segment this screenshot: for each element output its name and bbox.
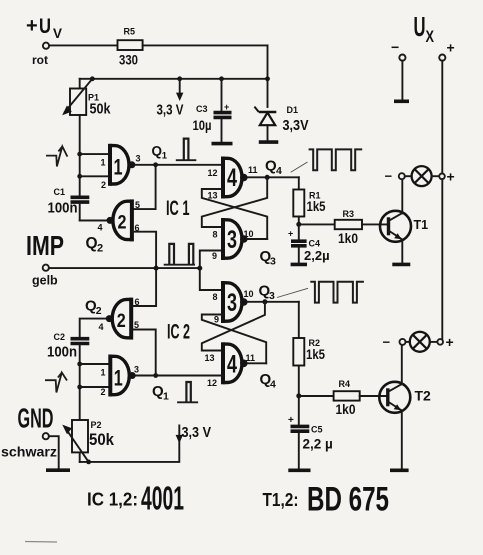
svg-text:+: + (447, 40, 455, 56)
lamp L2 (410, 332, 430, 352)
node IMP terminal (26, 230, 64, 288)
svg-text:3,3V: 3,3V (283, 117, 309, 134)
node Q2 label (86, 235, 104, 255)
node Q4 IC2 wire (248, 363, 276, 390)
svg-text:11: 11 (248, 165, 258, 175)
capacitor C2 100n (47, 332, 89, 361)
caption transistor types (263, 481, 390, 519)
caption IC types (87, 480, 184, 517)
svg-text:+: + (288, 229, 293, 239)
svg-text:−: − (391, 39, 399, 55)
svg-text:+: + (446, 334, 454, 350)
svg-text:C5: C5 (311, 425, 323, 435)
wire IMP to pin8 gate3 IC2 (200, 268, 223, 290)
wire P1 down left rail (79, 115, 81, 196)
resistor R5 330 (118, 27, 143, 68)
svg-text:1: 1 (163, 391, 169, 403)
ground bar Ux minus (394, 100, 409, 104)
ground bar GND (46, 468, 70, 472)
node Q2 IC2 label (85, 298, 102, 318)
svg-text:C3: C3 (196, 104, 208, 114)
wire pin6 gate2 IC2 up to IMP (131, 268, 156, 306)
svg-text:IMP: IMP (26, 230, 64, 261)
3.3V arrow top (157, 79, 184, 119)
junction IMP-gate2 (154, 266, 159, 271)
svg-text:3,3 V: 3,3 V (182, 424, 212, 441)
terminal circle rail lamp1 (439, 174, 445, 180)
node Ux terminals (391, 11, 455, 61)
svg-text:X: X (426, 27, 435, 46)
ground D1 (259, 140, 279, 144)
svg-text:3: 3 (270, 256, 276, 268)
svg-text:4: 4 (227, 350, 237, 378)
pointer line Q3 waveform (277, 288, 308, 297)
svg-text:1: 1 (114, 366, 123, 391)
svg-text:2,2 µ: 2,2 µ (303, 437, 333, 452)
svg-text:1: 1 (114, 155, 123, 180)
svg-text:10µ: 10µ (193, 117, 212, 133)
svg-text:−: − (383, 335, 391, 350)
svg-text:Q: Q (86, 235, 98, 252)
svg-text:2: 2 (97, 243, 103, 255)
wire gate2 IC2 output to left rail (80, 319, 106, 337)
wire lamp1 to rail (432, 175, 440, 177)
svg-text:1: 1 (162, 151, 168, 162)
node +Uv terminal (26, 15, 63, 67)
wire pin13 to Q3 cross-coupling (202, 189, 267, 239)
svg-text:+: + (288, 415, 294, 426)
waveform Q3 IC2 (310, 282, 364, 303)
svg-text:1k0: 1k0 (338, 231, 358, 246)
svg-text:3: 3 (227, 226, 237, 254)
zener diode D1 3,3V (254, 105, 308, 140)
svg-text:T1: T1 (414, 218, 429, 232)
svg-text:100n: 100n (48, 201, 78, 217)
svg-text:2: 2 (101, 180, 106, 190)
svg-text:U: U (39, 15, 51, 38)
node Q3 IC2 wire (248, 283, 299, 305)
wire R5 to corner (143, 44, 268, 46)
lamp row 2 (383, 335, 410, 350)
junction gate1 input B (77, 174, 82, 179)
terminal circle rail lamp2 (437, 339, 443, 345)
svg-text:12: 12 (208, 168, 218, 178)
svg-text:2: 2 (96, 305, 102, 317)
wire GND stub (49, 436, 59, 468)
wire C1 to Q2 corner (80, 204, 109, 221)
NOR gate 1 IC2 (101, 355, 140, 398)
svg-text:GND: GND (18, 403, 54, 434)
svg-text:P2: P2 (91, 420, 102, 430)
svg-text:C1: C1 (54, 187, 66, 197)
svg-text:5: 5 (135, 200, 140, 210)
wire gate1 input B (80, 175, 110, 177)
wire Uv to R5 (49, 44, 117, 46)
junction R2-R4-C5 (296, 393, 301, 398)
svg-text:D1: D1 (287, 105, 299, 115)
svg-text:T2: T2 (415, 388, 432, 404)
junction rail-3.3V arrow (177, 76, 182, 81)
svg-text:+: + (447, 169, 455, 185)
svg-text:3,3 V: 3,3 V (157, 103, 184, 119)
NOR gate 1 IC1 (101, 144, 141, 190)
svg-text:330: 330 (119, 52, 138, 68)
svg-text:+: + (26, 15, 38, 37)
junction IMP-risers (197, 266, 202, 271)
svg-text:R5: R5 (124, 27, 136, 37)
NOR gate 2 IC2 (99, 297, 140, 340)
node Q1 IC2 wire (136, 373, 223, 402)
wire T2 emitter (401, 411, 403, 469)
3.3V arrow bottom (176, 424, 211, 443)
wire P2 bottom (79, 452, 81, 462)
wire Q1 to pin5 gate2 (132, 165, 156, 209)
svg-text:T1,2:: T1,2: (263, 489, 299, 510)
wire Q4 to pin8 cross-coupling (202, 177, 267, 227)
lamp L1 (412, 166, 432, 186)
junction gate1 input A (77, 152, 82, 157)
svg-text:1k0: 1k0 (336, 402, 356, 417)
capacitor C1 100n (48, 187, 90, 217)
svg-text:2,2µ: 2,2µ (304, 248, 330, 263)
svg-text:13: 13 (205, 353, 215, 363)
ground C3 (212, 142, 233, 146)
svg-text:3: 3 (227, 289, 237, 317)
svg-text:11: 11 (246, 353, 256, 363)
svg-text:1k5: 1k5 (306, 346, 325, 362)
wire corner down to zener (267, 45, 269, 107)
wire T2 collector (401, 345, 403, 385)
pulse symbol IMP (164, 244, 195, 265)
wire pin9 to Q4 cross-coupling IC2 (202, 315, 266, 364)
wire P2 to 3.3V riser (80, 426, 180, 462)
ground T2 emitter (390, 468, 409, 472)
resistor R3 1k0 (299, 209, 389, 246)
svg-text:U: U (414, 11, 426, 42)
wire gate1 IC2 input B (80, 386, 111, 388)
potentiometer P1 50k (62, 79, 111, 118)
svg-text:schwarz: schwarz (1, 445, 57, 460)
svg-text:V: V (53, 25, 63, 41)
wire gate1 IC2 input A (80, 363, 111, 365)
svg-text:8: 8 (213, 292, 218, 302)
svg-text:8: 8 (213, 230, 218, 240)
svg-text:+: + (224, 102, 229, 112)
node Q1 wire (135, 144, 223, 168)
svg-text:−: − (385, 169, 393, 184)
resistor R4 1k0 (299, 379, 388, 417)
svg-text:IC 2: IC 2 (167, 321, 190, 344)
transistor T2 (379, 382, 431, 413)
svg-text:4: 4 (270, 379, 276, 391)
svg-text:4: 4 (98, 223, 103, 233)
wire IMP line (49, 267, 200, 269)
svg-text:C4: C4 (309, 239, 321, 249)
stray scan mark bottom left (25, 541, 57, 544)
transistor T1 (380, 211, 428, 242)
junction R1-R3-C4 (296, 222, 301, 227)
wire T1 collector (401, 179, 403, 213)
wire IMP to pin9 gate3 IC1 (200, 251, 223, 269)
trigger impulse symbol bottom (45, 373, 67, 393)
wire gate1 input A (80, 153, 110, 155)
svg-text:Q: Q (152, 144, 163, 159)
svg-text:4: 4 (227, 164, 237, 192)
junction gate1 IC2 input B (77, 385, 82, 390)
svg-text:BD 675: BD 675 (307, 481, 389, 519)
junction rail-P1 wiper (90, 76, 95, 81)
svg-text:3: 3 (136, 154, 141, 164)
junction P2 wiper (86, 460, 91, 465)
svg-text:2: 2 (118, 213, 127, 234)
NOR gate 4 IC1 (208, 157, 258, 201)
svg-text:1k5: 1k5 (307, 198, 326, 214)
NOR gate 3 IC2 (213, 281, 254, 325)
svg-text:C2: C2 (54, 332, 66, 342)
wire gate2 output to left rail (80, 219, 107, 221)
svg-text:4: 4 (276, 165, 282, 177)
junction rail-C3 (219, 76, 224, 81)
wire Q1 IC2 to pin5 gate2 (131, 330, 155, 376)
svg-text:2: 2 (101, 387, 106, 397)
svg-text:10: 10 (244, 289, 254, 299)
svg-text:IC 1,2:: IC 1,2: (87, 489, 138, 510)
NOR gate 4 IC2 (205, 342, 256, 388)
wire Ux plus rail (441, 61, 443, 340)
NOR gate 3 IC1 (212, 218, 254, 261)
svg-text:9: 9 (212, 251, 217, 261)
svg-text:2: 2 (117, 310, 126, 332)
node Q4 wire (248, 158, 299, 180)
svg-text:gelb: gelb (32, 274, 58, 288)
node Q3 wire (248, 239, 276, 268)
ground C4 (291, 263, 307, 267)
svg-text:50k: 50k (89, 431, 115, 449)
wire 3.3V rail (80, 78, 268, 80)
svg-text:5: 5 (134, 320, 139, 330)
node GND terminal (1, 403, 57, 460)
capacitor C5 2,2u (288, 396, 333, 469)
wire Ux minus stub (401, 61, 403, 100)
ground C5 (288, 468, 310, 472)
svg-text:12: 12 (207, 378, 217, 388)
waveform Q4 (309, 149, 363, 170)
capacitor C4 2,2u (288, 224, 330, 263)
wire Q3 to pin13 cross-coupling IC2 (202, 302, 265, 351)
svg-text:rot: rot (32, 53, 48, 67)
svg-text:3: 3 (134, 365, 139, 375)
svg-text:100n: 100n (47, 345, 77, 361)
resistor R2 1k5 (293, 302, 325, 396)
svg-text:10: 10 (244, 229, 254, 239)
capacitor C3 10u (193, 79, 232, 142)
svg-text:3: 3 (269, 290, 275, 302)
resistor R1 1k5 (293, 177, 325, 224)
svg-text:4001: 4001 (141, 480, 184, 517)
junction gate1 IC2 input A (77, 362, 82, 367)
svg-text:9: 9 (214, 315, 219, 325)
pointer line Q4 waveform (291, 162, 308, 172)
svg-text:1: 1 (101, 368, 106, 378)
wire C2 down left rail (79, 345, 81, 420)
svg-text:4: 4 (99, 322, 104, 332)
svg-text:R3: R3 (343, 209, 355, 219)
wire pin6 gate2 down to IMP (132, 232, 156, 268)
svg-text:R4: R4 (339, 379, 351, 389)
potentiometer P2 50k (62, 420, 114, 462)
svg-text:1: 1 (101, 158, 106, 168)
svg-text:50k: 50k (90, 102, 112, 118)
NOR gate 2 IC1 (98, 199, 141, 241)
ground T1 emitter (392, 263, 410, 267)
lamp row 1 (385, 169, 412, 184)
pulse symbol Q1 (176, 139, 197, 161)
junction rail-zener (265, 76, 270, 81)
wire lamp2 to rail (430, 341, 439, 343)
trigger impulse symbol top (46, 146, 67, 166)
pulse symbol Q1 IC2 (177, 382, 198, 402)
svg-text:IC 1: IC 1 (166, 197, 190, 220)
wire T1 emitter (401, 240, 403, 263)
